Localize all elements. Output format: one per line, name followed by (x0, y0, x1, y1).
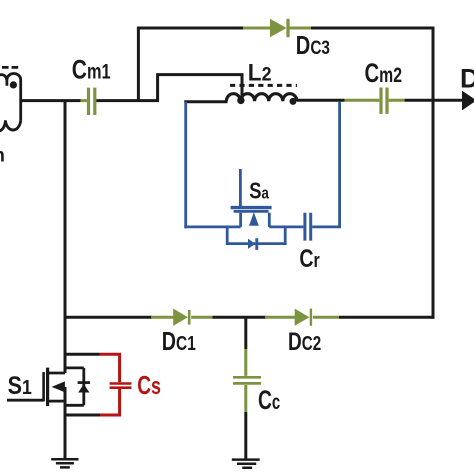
capacitor Cs (red) (100, 354, 132, 415)
core dashes of coupled inductor (primary, top-left) (2, 66, 18, 69)
wire: top rail right segment (311, 27, 435, 30)
inductor L2 winding (226, 94, 297, 102)
wire: L2 left end to auxiliary cell (184, 100, 227, 103)
wire: DC2 to right rail (339, 316, 435, 319)
svg-text:Cm2: Cm2 (365, 58, 403, 88)
wire: Lm to Cm1 (node A) (21, 99, 81, 102)
wire: auxiliary cell left vertical (blue) (184, 102, 187, 229)
wire: Cm1 to step-up corner (96, 99, 159, 102)
svg-text:D: D (460, 64, 474, 94)
polarity dot (Lm) (10, 81, 17, 88)
MOSFET S1 (7, 368, 90, 459)
diode DC2 (265, 309, 339, 326)
diode DC1 (151, 309, 212, 326)
polarity dot (L2) (290, 98, 297, 105)
svg-text:DC1: DC1 (162, 328, 196, 356)
wire: node A vertical down to S1 drain (64, 101, 67, 373)
wire: L2 right end to Cm2 (297, 99, 345, 103)
wire: auxiliary cell bottom-left (blue) (184, 225, 240, 228)
wire: right rail vertical (432, 27, 435, 319)
output diode D (clipped at right edge) (462, 91, 474, 111)
svg-text:Cc: Cc (258, 385, 280, 415)
winding Lm arcs (primary winding, clipped at left edge) (0, 74, 21, 132)
junction dot at L2 left end (237, 97, 244, 104)
core dashes above L2 (230, 84, 297, 87)
svg-text:Cr: Cr (299, 245, 319, 273)
svg-text:Cs: Cs (137, 372, 161, 400)
svg-text:DC2: DC2 (288, 328, 321, 356)
wire: Cc to ground (244, 412, 247, 459)
MOSFET Sa (blue) (231, 169, 272, 227)
wire: S1 drain branch to Cs (black part) (65, 353, 100, 356)
wire: Cc node down (black) (244, 317, 247, 349)
wire: step up from node A over to L2 left end (158, 75, 242, 101)
capacitor Cr (blue) (305, 213, 311, 241)
svg-text:Sa: Sa (249, 177, 269, 203)
diode DC3 (243, 19, 312, 37)
svg-text:Cm1: Cm1 (72, 55, 111, 85)
capacitor Cm2 (345, 88, 405, 114)
wire: Cs bottom to S1 source (black part) (65, 414, 100, 417)
svg-text:L2: L2 (248, 59, 272, 86)
wire: DC1 to Cc node (212, 316, 266, 319)
ground (S1) (51, 459, 78, 467)
svg-text:m: m (0, 145, 5, 166)
wire: bottom rail left segment (65, 316, 152, 319)
capacitor Cc (233, 349, 261, 412)
ground (Cc) (232, 460, 260, 468)
wire: Cr to auxiliary cell right vertical (blue) (312, 102, 339, 227)
svg-text:DC3: DC3 (296, 32, 330, 60)
wire: Sa source to Cr (blue) (269, 225, 303, 228)
capacitor Cm1 (81, 88, 95, 115)
wire: top rail left segment (137, 27, 244, 30)
wire: Cm2 to output node (405, 99, 464, 102)
svg-text:S1: S1 (8, 372, 32, 400)
wire: node A vertical to top rail (137, 28, 140, 101)
body diode of Sa (blue) (227, 227, 285, 250)
